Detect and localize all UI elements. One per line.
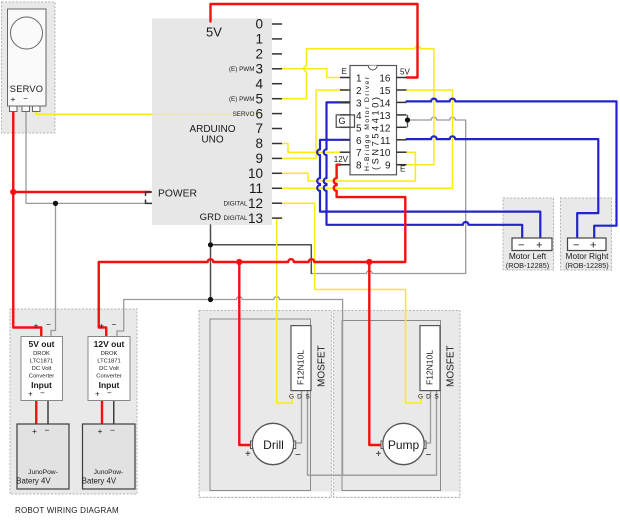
svg-text:G: G: [338, 116, 345, 126]
svg-text:−: −: [110, 425, 115, 435]
svg-text:8: 8: [356, 161, 362, 172]
svg-text:2: 2: [255, 47, 263, 62]
svg-text:5V out: 5V out: [29, 339, 55, 349]
svg-text:DC Volt: DC Volt: [99, 366, 119, 372]
svg-text:SERVO: SERVO: [233, 111, 255, 118]
svg-text:Motor Left: Motor Left: [509, 251, 547, 261]
svg-text:−: −: [426, 450, 432, 461]
svg-text:S: S: [305, 394, 310, 401]
svg-text:+: +: [34, 321, 39, 331]
svg-text:Motor Right: Motor Right: [566, 251, 610, 261]
svg-text:5: 5: [356, 123, 362, 134]
svg-text:DROK: DROK: [101, 351, 118, 357]
svg-text:+: +: [11, 95, 16, 104]
svg-text:3: 3: [356, 98, 362, 109]
svg-text:POWER: POWER: [158, 189, 197, 200]
svg-text:12: 12: [248, 196, 263, 211]
svg-text:8: 8: [255, 136, 263, 151]
svg-text:15: 15: [379, 86, 391, 97]
svg-text:+: +: [536, 240, 542, 252]
svg-text:−: −: [112, 320, 117, 330]
svg-text:9: 9: [255, 151, 263, 166]
svg-text:GRD: GRD: [200, 212, 221, 223]
svg-text:LTC1871: LTC1871: [30, 359, 53, 365]
svg-text:12: 12: [379, 123, 391, 134]
svg-text:9: 9: [385, 161, 391, 172]
svg-text:F12N10L: F12N10L: [425, 350, 435, 385]
svg-text:13: 13: [248, 211, 263, 226]
svg-text:−: −: [40, 389, 45, 398]
svg-text:+: +: [95, 390, 100, 399]
svg-text:(ROB-12285): (ROB-12285): [506, 261, 549, 270]
svg-text:DIGITAL: DIGITAL: [223, 215, 248, 222]
svg-text:Pump: Pump: [388, 438, 420, 452]
svg-text:Converter: Converter: [29, 374, 55, 380]
svg-text:(ROB-12285): (ROB-12285): [565, 261, 608, 270]
svg-text:0: 0: [255, 17, 263, 32]
svg-text:MOSFET: MOSFET: [446, 345, 457, 387]
svg-text:16: 16: [379, 74, 391, 85]
svg-text:1: 1: [255, 32, 263, 47]
svg-text:E: E: [400, 165, 405, 174]
svg-text:(E) PWM: (E) PWM: [229, 96, 255, 103]
svg-text:JunoPow-: JunoPow-: [28, 469, 58, 476]
svg-text:2: 2: [356, 86, 362, 97]
svg-text:Batery 4V: Batery 4V: [16, 477, 51, 486]
svg-text:MOSFET: MOSFET: [317, 345, 328, 387]
svg-text:UNO: UNO: [201, 134, 223, 145]
svg-text:6: 6: [255, 106, 263, 121]
svg-text:1: 1: [356, 74, 362, 85]
svg-text:−: −: [295, 450, 301, 461]
svg-text:ROBOT WIRING DIAGRAM: ROBOT WIRING DIAGRAM: [15, 506, 119, 515]
svg-text:DIGITAL: DIGITAL: [223, 201, 248, 208]
svg-text:10: 10: [248, 166, 263, 181]
svg-text:−: −: [573, 240, 579, 252]
svg-text:11: 11: [249, 181, 263, 196]
svg-text:Converter: Converter: [96, 374, 122, 380]
svg-text:4: 4: [255, 76, 263, 91]
svg-text:−: −: [518, 240, 524, 252]
svg-text:5V: 5V: [206, 25, 222, 40]
svg-text:SERVO: SERVO: [10, 84, 43, 94]
svg-text:+: +: [590, 240, 596, 252]
svg-text:DC Volt: DC Volt: [32, 366, 52, 372]
svg-text:14: 14: [379, 98, 391, 109]
svg-text:4: 4: [356, 111, 362, 122]
svg-text:7: 7: [255, 121, 263, 136]
svg-text:−: −: [46, 320, 51, 330]
svg-text:S: S: [434, 394, 439, 401]
svg-text:LTC1871: LTC1871: [97, 359, 120, 365]
svg-text:E: E: [342, 67, 347, 76]
svg-text:D: D: [297, 394, 302, 401]
svg-text:−: −: [45, 425, 50, 435]
svg-text:+: +: [32, 426, 37, 436]
svg-text:DROK: DROK: [33, 351, 50, 357]
svg-text:5: 5: [255, 91, 263, 106]
svg-text:+: +: [245, 449, 251, 460]
svg-text:Drill: Drill: [263, 438, 284, 452]
svg-text:11: 11: [380, 136, 391, 147]
svg-text:13: 13: [379, 111, 391, 122]
svg-text:+: +: [99, 321, 104, 331]
svg-text:G: G: [418, 394, 423, 401]
svg-text:+: +: [376, 449, 382, 460]
svg-text:+: +: [28, 390, 33, 399]
svg-text:+: +: [98, 426, 103, 436]
svg-text:Batery 4V: Batery 4V: [82, 477, 117, 486]
svg-text:5V: 5V: [400, 68, 410, 77]
svg-text:12V: 12V: [334, 155, 349, 164]
svg-text:12V out: 12V out: [94, 339, 125, 349]
svg-text:D: D: [426, 394, 431, 401]
svg-text:3: 3: [255, 62, 263, 77]
svg-text:G: G: [289, 394, 294, 401]
svg-text:−: −: [107, 389, 112, 398]
svg-text:7: 7: [356, 148, 362, 159]
svg-text:JunoPow-: JunoPow-: [94, 469, 124, 476]
svg-text:6: 6: [356, 136, 362, 147]
svg-text:F12N10L: F12N10L: [296, 350, 306, 385]
svg-text:(E) PWM: (E) PWM: [229, 66, 255, 73]
svg-text:10: 10: [379, 148, 391, 159]
svg-text:−: −: [23, 94, 28, 103]
